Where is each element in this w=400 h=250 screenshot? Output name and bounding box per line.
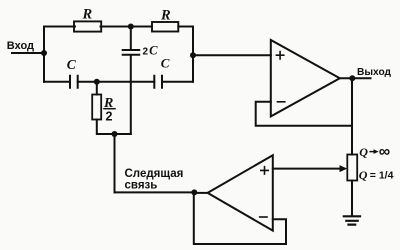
svg-text:Выход: Выход — [357, 67, 392, 78]
op-amp U1 minus sign — [278, 101, 285, 103]
node bootstrap junction — [112, 131, 118, 137]
wire right rail — [192, 27, 194, 82]
svg-text:= 1/4: = 1/4 — [370, 170, 394, 182]
ground — [344, 216, 360, 224]
op-amp U2 plus sign — [261, 167, 268, 174]
node output junction — [349, 75, 355, 81]
wire output rail down — [351, 78, 353, 154]
wire top rail segment 2 — [101, 26, 153, 28]
node input junction — [41, 50, 47, 56]
svg-text:Следящая: Следящая — [125, 168, 184, 180]
svg-text:2C: 2C — [143, 44, 159, 58]
label R3 fraction bar — [104, 108, 115, 110]
op-amp U2 — [208, 155, 273, 230]
capacitor C3 plates — [154, 76, 162, 88]
capacitor C1 2C lead bottom — [130, 56, 132, 134]
wire input lead — [12, 52, 44, 54]
op-amp U1 — [271, 40, 340, 116]
wire R3 top lead — [96, 82, 98, 95]
wire op-amp U1 plus input — [193, 54, 271, 56]
wire U1 output — [340, 77, 371, 79]
wire U1 feedback — [256, 102, 352, 126]
wire top rail segment 3 — [178, 26, 193, 28]
svg-text:C: C — [161, 56, 170, 71]
wire left rail — [43, 27, 45, 82]
wire below potentiometer — [351, 181, 353, 217]
svg-text:Q: Q — [359, 168, 368, 182]
wire C row — [44, 81, 193, 83]
label R3 value R/2 — [103, 96, 113, 124]
wire U2 plus input to wiper — [273, 168, 341, 170]
wire U2 output to junction — [194, 192, 207, 194]
node C row middle junction — [94, 79, 100, 85]
capacitor C1 2C lead top — [130, 27, 132, 50]
resistor R3 R/2 — [92, 95, 101, 120]
wire U2 feedback loop — [194, 193, 286, 244]
capacitor C1 2C plates — [123, 50, 140, 55]
wire R3 bottom lead — [97, 120, 131, 135]
svg-text:R: R — [82, 7, 93, 23]
wire bootstrap vertical — [114, 134, 116, 192]
node top middle junction — [128, 24, 134, 30]
wire top rail segment 1 — [44, 26, 75, 28]
potentiometer RV1 wiper arrow — [340, 165, 348, 172]
resistor R2 — [152, 22, 178, 32]
label Q equals one quarter — [359, 168, 394, 182]
capacitor C2 plates — [70, 76, 78, 88]
wire bootstrap horizontal — [115, 191, 195, 193]
op-amp U1 plus sign — [276, 52, 283, 59]
svg-text:связь: связь — [125, 180, 158, 192]
node op-amp input tap — [190, 52, 196, 58]
op-amp U2 minus sign — [260, 216, 267, 218]
svg-text:R: R — [160, 7, 171, 23]
svg-text:C: C — [67, 57, 77, 72]
label Q arrow — [370, 151, 375, 153]
resistor R1 — [74, 21, 101, 31]
svg-text:∞: ∞ — [379, 144, 390, 161]
potentiometer RV1 body — [347, 155, 357, 181]
node buffer output junction — [191, 189, 197, 195]
svg-text:2: 2 — [106, 110, 113, 124]
svg-text:Вход: Вход — [7, 40, 34, 52]
label Q to infinity — [359, 144, 390, 161]
label Следящая связь — [125, 168, 184, 192]
svg-text:Q: Q — [359, 145, 368, 159]
